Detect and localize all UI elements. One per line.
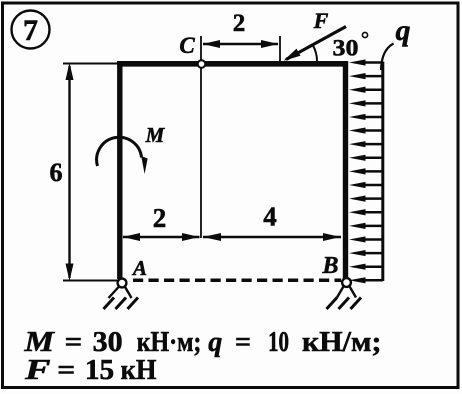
load q arrow 2 bbox=[349, 73, 383, 79]
dashed line A to B bbox=[133, 279, 341, 283]
dimension 6 arrow up bbox=[66, 63, 74, 81]
top dimension 2 right arrow bbox=[261, 40, 279, 48]
dimension 6 arrow down bbox=[66, 264, 74, 282]
support B right leg bbox=[349, 286, 356, 298]
q leader line bbox=[381, 44, 394, 71]
load q arrow 6 bbox=[349, 127, 383, 133]
mid dim 4 right arrow bbox=[323, 233, 341, 241]
svg-text:7: 7 bbox=[23, 14, 38, 47]
load q arrow 9 bbox=[349, 168, 383, 174]
svg-text:M=30кН·м;q=10кН/м;: M=30кН·м;q=10кН/м; bbox=[23, 327, 381, 358]
svg-text:C: C bbox=[179, 33, 195, 58]
load q arrow 4 bbox=[349, 100, 383, 106]
support A right leg bbox=[125, 286, 132, 298]
svg-text:M: M bbox=[145, 123, 166, 147]
moment M arrowhead bbox=[141, 156, 147, 174]
load q arrow 15 bbox=[349, 250, 383, 256]
load q arrow 11 bbox=[349, 196, 383, 202]
load q arrow 13 bbox=[349, 223, 383, 229]
angle 30 arc bbox=[313, 46, 317, 62]
node C circle bbox=[198, 60, 206, 68]
support B pin bbox=[342, 278, 351, 287]
svg-text:2: 2 bbox=[153, 203, 167, 233]
moment M arc bbox=[97, 137, 142, 166]
load q arrow 10 bbox=[349, 182, 383, 188]
extension tick at top dim right end bbox=[279, 36, 281, 62]
dimension 6 line bbox=[68, 66, 70, 278]
dimension 6 extension line bottom bbox=[63, 280, 118, 282]
task number circle 7 bbox=[12, 11, 50, 49]
load q arrow 7 bbox=[349, 141, 383, 147]
load q arrow 14 bbox=[349, 236, 383, 242]
load q arrow 17 bbox=[349, 277, 383, 283]
mid dim 2 left arrow bbox=[123, 233, 141, 241]
support A left leg bbox=[109, 286, 120, 298]
top dimension 2 left arrow bbox=[203, 40, 221, 48]
dimension 6 extension line top bbox=[63, 63, 118, 65]
svg-text:F=15кН: F=15кН bbox=[24, 355, 157, 386]
svg-text:6: 6 bbox=[50, 158, 63, 187]
load q arrow 3 bbox=[349, 87, 383, 93]
support A hatching bbox=[104, 298, 139, 310]
load q arrow 1 bbox=[349, 59, 383, 65]
svg-text:B: B bbox=[321, 253, 338, 279]
load right boundary line bbox=[381, 62, 384, 282]
svg-text:2: 2 bbox=[233, 10, 246, 37]
frame: right column bbox=[343, 61, 348, 280]
support B left leg bbox=[337, 286, 344, 298]
mid dim 2 right arrow bbox=[182, 233, 200, 241]
svg-text:q: q bbox=[396, 14, 411, 47]
top dimension 2 line bbox=[203, 43, 278, 45]
force F arrowhead bbox=[284, 49, 301, 61]
load q arrow 16 bbox=[349, 264, 383, 270]
extension line from C down to dimension line bbox=[200, 36, 202, 238]
load q arrow 12 bbox=[349, 209, 383, 215]
support B hatching bbox=[327, 298, 362, 310]
frame: left column bbox=[117, 61, 122, 279]
load q arrow 8 bbox=[349, 155, 383, 161]
degree symbol bbox=[362, 32, 367, 37]
frame: top beam bbox=[117, 61, 347, 67]
load q arrow 5 bbox=[349, 114, 383, 120]
svg-text:4: 4 bbox=[263, 202, 277, 232]
force F line bbox=[286, 27, 346, 60]
mid dimension line 2 segment bbox=[123, 236, 200, 239]
support A pin bbox=[118, 279, 127, 288]
mid dim 4 left arrow bbox=[203, 233, 221, 241]
svg-text:A: A bbox=[131, 256, 147, 280]
svg-text:30: 30 bbox=[333, 36, 359, 62]
mid dimension line 4 segment bbox=[203, 236, 341, 239]
svg-text:F: F bbox=[313, 8, 329, 33]
